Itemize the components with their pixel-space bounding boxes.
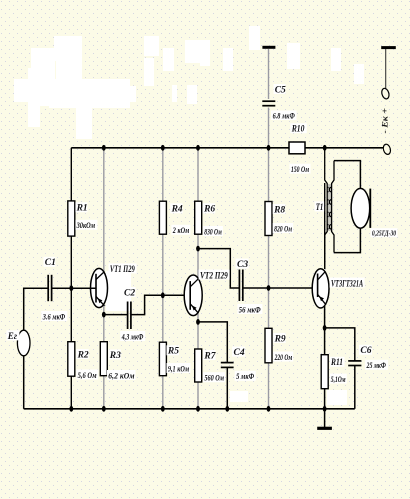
wire VT1 collector-emitter column — [103, 148, 105, 409]
resistor R8 — [265, 202, 272, 236]
svg-text:6.8 мкФ: 6.8 мкФ — [273, 110, 296, 120]
svg-text:R1: R1 — [76, 204, 88, 214]
terminal + (circle) — [381, 87, 391, 99]
svg-text:9,1 кОм: 9,1 кОм — [168, 363, 189, 373]
wire Eg to C1 — [24, 288, 49, 331]
transistor VT1 — [71, 268, 107, 307]
label R4 — [170, 203, 183, 214]
label T1 — [315, 201, 325, 212]
label R9 value 220 Ом — [273, 352, 293, 362]
label C6 — [359, 345, 372, 356]
svg-text:C1: C1 — [45, 258, 56, 268]
svg-text:C6: C6 — [360, 346, 371, 356]
resistor R11 — [321, 355, 328, 389]
node VT1 emitter / C2 / R3 — [102, 312, 106, 318]
svg-text:R9: R9 — [274, 334, 286, 344]
capacitor C2 — [128, 302, 131, 330]
label C2 value 4,3 мкФ — [120, 331, 145, 341]
label R9 — [273, 333, 286, 344]
label C3 value 56 мкФ — [237, 304, 262, 314]
label C5 value 6.8 мкФ — [271, 110, 297, 120]
label R1 — [75, 202, 87, 213]
svg-text:560 Ом: 560 Ом — [204, 373, 224, 383]
loudspeaker BA1 — [351, 188, 370, 228]
svg-text:5,6 Ом: 5,6 Ом — [78, 370, 97, 380]
transformer T1 secondary winding — [329, 161, 334, 253]
node VT2 base / R4 / R5 — [161, 292, 165, 298]
label Ег — [6, 330, 19, 341]
svg-text:VT3ГТ321А: VT3ГТ321А — [331, 278, 363, 288]
wire R1 branch — [70, 148, 72, 288]
wire speaker loop — [334, 161, 360, 253]
svg-text:30кОм: 30кОм — [76, 220, 95, 230]
node VT3 emitter / R11 / C6 — [323, 325, 327, 331]
node VT1 base / C1 / R1 / R2 — [69, 285, 73, 291]
label C2 — [123, 287, 136, 298]
wire terminal bar to + terminal — [385, 49, 387, 88]
svg-text:150 Ом: 150 Ом — [291, 164, 309, 174]
wire C4 to bottom rail — [226, 367, 228, 408]
svg-text:C5: C5 — [275, 85, 286, 95]
wire VT2 emitter to C4 — [198, 322, 227, 363]
label R6 value 830 Ом — [203, 226, 223, 236]
label R10 value 150 Ом — [290, 164, 311, 174]
capacitor C4 — [221, 363, 234, 368]
wire VT1 emitter to C2 — [104, 314, 128, 316]
label R6 — [203, 203, 216, 214]
node bottom rail / R9 — [267, 406, 271, 412]
wire R4-R5 column — [162, 148, 164, 409]
label R2 value 5,6 Ом — [76, 370, 98, 380]
svg-text:C2: C2 — [124, 288, 135, 298]
node top rail / T1 primary — [323, 145, 327, 151]
svg-text:4,3 мкФ: 4,3 мкФ — [121, 331, 144, 341]
capacitor C5 — [261, 99, 276, 108]
svg-text:C3: C3 — [237, 260, 248, 270]
node top rail / C5-R8 — [267, 145, 271, 151]
transformer T1 core — [329, 184, 330, 231]
svg-text:820 Ом: 820 Ом — [274, 223, 292, 233]
label C1 value 3.6 мкФ — [41, 311, 67, 321]
label C4 value 5 мкФ — [235, 371, 256, 381]
resistor R9 — [265, 328, 272, 363]
transformer T1 primary winding — [325, 148, 330, 269]
label C6 value 25 мкФ — [365, 360, 388, 370]
svg-text:R7: R7 — [203, 351, 216, 361]
svg-text:R11: R11 — [330, 358, 343, 368]
resistor R6 — [195, 201, 202, 234]
resistor R7 — [195, 349, 202, 382]
svg-text:5,1Ом: 5,1Ом — [331, 374, 346, 384]
wire VT3 emitter node to R11 — [324, 306, 326, 355]
svg-text:VT1 П29: VT1 П29 — [110, 264, 135, 274]
terminal bar above C5 — [262, 46, 275, 49]
wire C6 to bottom rail — [354, 366, 356, 409]
svg-text:C4: C4 — [234, 348, 245, 358]
svg-text:56 мкФ: 56 мкФ — [239, 304, 262, 314]
resistor R5 — [159, 342, 166, 376]
label R7 value 560 Ом — [203, 372, 225, 382]
capacitor C1 — [48, 275, 51, 301]
wire C5-R8-R9 column — [268, 49, 270, 409]
transistor VT2 — [184, 275, 202, 316]
svg-text:R5: R5 — [167, 347, 179, 357]
svg-text:R10: R10 — [291, 125, 305, 135]
label R11 — [330, 357, 345, 368]
label R3 value 6,2 кОм — [107, 370, 136, 380]
wire VT3 collector up — [324, 183, 326, 269]
wire C2 to VT2 base node — [131, 295, 190, 314]
node top rail / R4 — [161, 145, 165, 151]
svg-text:R4: R4 — [171, 205, 183, 215]
svg-text:3.6 мкФ: 3.6 мкФ — [42, 311, 66, 321]
svg-text:6,2 кОм: 6,2 кОм — [108, 370, 134, 380]
label C5 — [274, 84, 287, 95]
label R10 — [290, 123, 307, 134]
label speaker 0,25ГД-30 — [371, 228, 398, 238]
wire C1 to VT1 base — [52, 287, 96, 289]
wire bottom rail — [24, 408, 355, 410]
label C4 — [232, 347, 245, 358]
wire R6-VT2-R7 column — [197, 148, 199, 409]
label VT1 П29 — [109, 263, 137, 274]
node VT2 emitter / R7 / C4 — [196, 319, 200, 325]
label C3 — [236, 259, 249, 270]
svg-text:R3: R3 — [109, 351, 121, 361]
resistor R1 — [68, 201, 75, 236]
svg-text:830 Ом: 830 Ом — [204, 226, 222, 236]
resistor R4 — [159, 201, 166, 234]
label C1 — [43, 257, 55, 268]
label R8 — [273, 204, 286, 215]
node bottom rail / R7 — [196, 406, 200, 412]
wire C3 to VT3 base — [243, 287, 318, 289]
label R5 — [167, 345, 180, 356]
wire R2 branch — [70, 288, 72, 409]
capacitor C3 — [239, 270, 242, 302]
node VT2 collector / R6 / C3 — [196, 246, 200, 252]
svg-text:R8: R8 — [273, 205, 285, 215]
terminal bar above +Ek — [381, 46, 396, 49]
svg-text:2 кОм: 2 кОм — [172, 225, 189, 235]
source Eg — [17, 330, 30, 356]
resistor R10 — [289, 142, 305, 154]
white patch background artifacts — [14, 26, 364, 405]
svg-text:25 мкФ: 25 мкФ — [366, 360, 387, 370]
label R4 value 2 кОм — [171, 225, 190, 235]
label R5 value 9,1 кОм — [167, 363, 191, 373]
svg-text:VT2 П29: VT2 П29 — [200, 270, 228, 280]
wire VT2 collector to C3 — [198, 249, 239, 288]
transistor VT3 — [312, 269, 329, 308]
svg-text:5 мкФ: 5 мкФ — [236, 371, 255, 381]
node bottom rail / R2 — [69, 406, 73, 412]
node top rail / VT1 collector — [102, 145, 106, 151]
node VT3 base / C3 / R8 / R9 — [267, 285, 271, 291]
label R2 — [76, 349, 89, 360]
svg-text:T1: T1 — [316, 203, 324, 213]
label VT3 ГТ321А — [330, 278, 365, 289]
label R11 value 5,1Ом — [330, 374, 347, 384]
resistor R3 — [100, 342, 107, 376]
node top rail / R6 — [196, 145, 200, 151]
svg-text:R6: R6 — [203, 205, 215, 215]
label VT2 П29 — [199, 270, 230, 281]
label R7 — [203, 350, 217, 361]
svg-text:R2: R2 — [77, 350, 89, 360]
capacitor C6 — [348, 361, 361, 366]
node bottom rail / R5 — [161, 406, 165, 412]
node bottom rail / R3 — [102, 406, 106, 412]
wire Eg to bottom rail — [23, 355, 25, 409]
node bottom rail / ground — [323, 406, 327, 412]
svg-text:220 Ом: 220 Ом — [274, 352, 292, 362]
label R8 value 820 Ом — [273, 223, 294, 233]
svg-text:0,25ГД-30: 0,25ГД-30 — [372, 229, 396, 238]
svg-text:Ег: Ег — [7, 331, 18, 341]
wire top rail — [71, 147, 383, 149]
wire VT3 emitter to C6 — [325, 328, 355, 361]
ground — [317, 409, 332, 429]
node bottom rail / C4 — [225, 406, 229, 412]
resistor R2 — [68, 342, 75, 377]
wire R11 to bottom rail — [324, 389, 326, 409]
terminal - (circle) — [382, 143, 391, 155]
label R3 — [108, 350, 121, 361]
label R1 value 30кОм — [75, 220, 97, 230]
svg-text:- Ек +: - Ек + — [381, 108, 390, 134]
